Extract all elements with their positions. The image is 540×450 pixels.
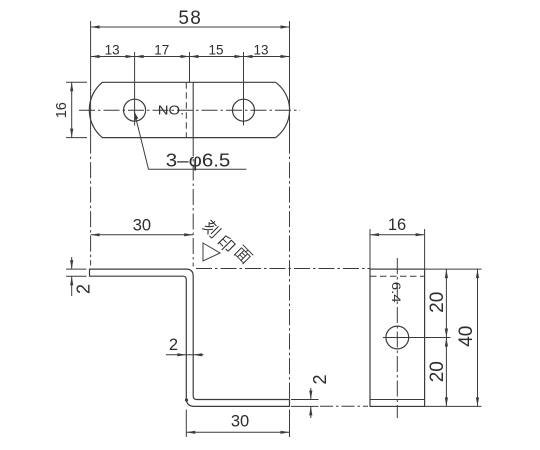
svg-text:13: 13: [105, 43, 120, 58]
dimension 2 left: extension lines: [66, 268, 87, 270]
dimension 16 left: extension lines: [66, 81, 87, 83]
dimension 40 line: [477, 269, 479, 406]
dimension 2 right: dimension line: [310, 388, 312, 400]
svg-text:2: 2: [74, 284, 94, 294]
dimension texts: [178, 8, 202, 29]
right view rectangle: [370, 269, 425, 406]
arrows dim 2 left (outside): [70, 260, 73, 269]
dimension 30 top: dimension line: [91, 234, 194, 236]
bottom flange top surface line (right view): [370, 399, 425, 401]
arrows dim 2 right (outside): [309, 391, 312, 400]
kanji in: [216, 234, 236, 254]
vertical centerline right view: [396, 258, 398, 418]
arrows dim 30 top: [91, 233, 100, 236]
hole (right view): [386, 326, 409, 349]
hole left (top view): [124, 99, 146, 121]
Z profile outline (side view): [90, 269, 290, 406]
arrows dim 30 bottom: [186, 431, 195, 434]
dimension 2 right: extension lines: [291, 399, 319, 401]
projection centerline from bend down to Z corner: [192, 140, 194, 267]
arrow leader 3-phi6.5: [134, 112, 138, 121]
extension line right end of plate: [289, 21, 291, 138]
stamp mark triangle: [203, 243, 220, 261]
hole right vertical centerline + extension: [243, 52, 245, 126]
svg-text:40: 40: [456, 326, 477, 347]
dimension 2 left: dimension line: [71, 257, 73, 269]
projection centerline plate right end down to Z flange end: [289, 138, 291, 399]
dimension 16 right: dimension line: [370, 234, 425, 236]
dimension 16 right: extension lines: [369, 229, 371, 269]
dimension line 58: [91, 26, 290, 28]
kanji koku: [201, 218, 222, 239]
dash-dot line along top surface to right view: [196, 268, 370, 270]
svg-text:15: 15: [208, 43, 223, 58]
dash-dot line along bottom surface to right view: [320, 405, 368, 407]
plate horizontal centerline: [79, 109, 300, 111]
svg-text:20: 20: [427, 292, 448, 313]
dimension 2 middle: dimension line: [166, 354, 204, 356]
projection centerline plate left end down to Z view: [90, 138, 92, 266]
svg-text:6.4: 6.4: [389, 282, 403, 303]
bend hidden line (dashed) top view: [185, 82, 187, 137]
corner junction dot: [185, 398, 188, 401]
kanji men: [233, 244, 254, 265]
svg-text:17: 17: [154, 43, 169, 58]
arrowheads: [70, 25, 479, 434]
arrows dim 16 right: [370, 233, 379, 236]
svg-text:30: 30: [231, 413, 249, 431]
svg-text:30: 30: [133, 217, 151, 235]
bend visible line top view: [192, 82, 194, 140]
svg-text:NO.: NO.: [158, 104, 185, 118]
dimension 20/20 line: [445, 269, 447, 406]
hole right (top view): [233, 99, 255, 121]
svg-text:20: 20: [427, 361, 448, 382]
hole left vertical centerline + extension: [134, 52, 136, 126]
svg-text:3–φ6.5: 3–φ6.5: [166, 150, 231, 171]
extension line left end of plate: [90, 21, 92, 138]
arrows dim 20 upper: [445, 269, 448, 278]
extension line bottom right: [425, 405, 482, 407]
svg-text:13: 13: [253, 43, 268, 58]
svg-text:2: 2: [310, 374, 330, 384]
extension line top right: [425, 268, 482, 270]
extension line mid tick: [189, 52, 191, 82]
svg-text:16: 16: [388, 216, 406, 234]
arrows dim 16 left: [70, 82, 73, 91]
svg-text:2: 2: [169, 336, 178, 354]
dimension 30 bottom: extension lines: [185, 410, 187, 438]
dimension 16 left: dimension line: [71, 82, 73, 137]
arrows dim 58: [91, 25, 100, 28]
text kokuin-men (stamp face) rotated 45, drawn as vector glyphs: [201, 218, 253, 265]
hidden line top flange bottom (right view): [370, 275, 425, 277]
arrows dim 40: [476, 269, 479, 278]
arrows chain dim: [91, 55, 100, 58]
svg-text:58: 58: [178, 8, 202, 29]
dimension 30 bottom: dimension line: [186, 431, 289, 433]
arrows dim 20 lower: [445, 338, 448, 347]
arrows dim 2 middle (outside): [177, 353, 186, 356]
plate top view outline: [89, 82, 289, 137]
hole horizontal centerline + extension for 20 dim: [383, 337, 451, 339]
svg-text:16: 16: [54, 102, 70, 118]
dimension line chain 13 17 15 13: [91, 56, 290, 58]
leader line 3-phi6.5: [134, 112, 246, 170]
